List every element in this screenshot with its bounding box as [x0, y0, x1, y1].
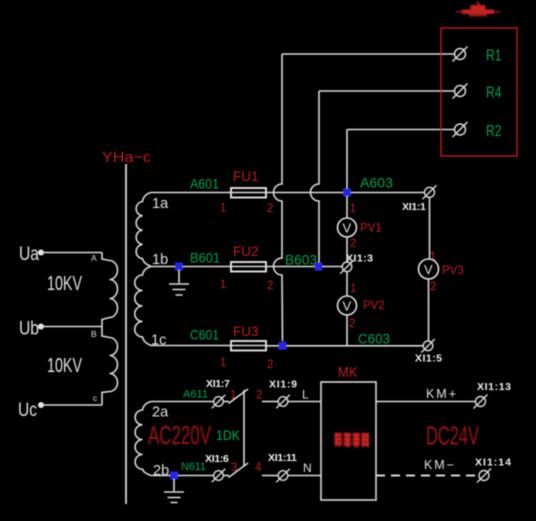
svg-text:Ub: Ub — [19, 319, 39, 340]
terminal XI1:6 — [212, 469, 226, 483]
svg-text:PV3: PV3 — [442, 265, 464, 277]
svg-text:1: 1 — [350, 203, 356, 215]
svg-text:V: V — [424, 262, 433, 277]
secondary winding 1a-1b — [136, 193, 151, 267]
terminal XI1:3 — [340, 260, 354, 274]
wire R2 vertical — [346, 130, 348, 191]
svg-text:L: L — [302, 388, 309, 402]
wire stub after XI1:7 — [224, 401, 230, 403]
transformer core — [125, 164, 127, 504]
secondary winding 1b-1c — [135, 267, 151, 346]
terminal XI1:1 — [423, 185, 437, 199]
svg-text:A603: A603 — [360, 175, 393, 191]
wire stub after XI1:6 — [224, 475, 230, 477]
fuse FU3 — [231, 341, 266, 351]
wire bus A603 — [266, 192, 425, 194]
switch blade 1DK upper — [229, 389, 249, 404]
svg-text:B601: B601 — [190, 250, 220, 266]
svg-text:1: 1 — [220, 357, 226, 369]
wire PV3 bottom — [428, 279, 430, 341]
wire N into MK — [288, 475, 321, 477]
wire R1 vertical with hops — [274, 54, 283, 341]
resistor box — [441, 28, 517, 156]
wire L into MK — [288, 401, 321, 403]
terminal R2 — [453, 122, 468, 137]
wire PV3 top — [429, 198, 431, 260]
node R4-B603 junction — [315, 263, 323, 271]
svg-text:10KV: 10KV — [47, 355, 82, 377]
svg-text:2b: 2b — [153, 463, 169, 479]
svg-text:Uc: Uc — [18, 400, 37, 421]
svg-text:AC220V: AC220V — [148, 420, 211, 450]
node R2-A603 junction — [343, 189, 351, 197]
terminal XI1:11 — [276, 469, 290, 483]
wire 2a to XI1:9 — [262, 401, 278, 403]
terminal XI1:9 — [276, 395, 290, 409]
svg-text:C601: C601 — [190, 327, 219, 343]
heater symbol above box — [456, 2, 500, 17]
wire 1b to FU2 — [151, 266, 231, 268]
terminal XI1:13 — [474, 395, 488, 409]
svg-text:XI1:11: XI1:11 — [268, 452, 297, 464]
svg-text:N611: N611 — [181, 461, 206, 473]
svg-text:FU1: FU1 — [233, 169, 259, 184]
voltmeter PV1 — [338, 218, 357, 237]
wire Uc to winding — [41, 404, 102, 406]
wire Ub to winding — [41, 326, 102, 328]
rectifier module MK box — [321, 382, 376, 500]
svg-text:XI1:7: XI1:7 — [206, 378, 230, 390]
svg-text:XI1:3: XI1:3 — [346, 253, 373, 265]
wire bus C603 — [266, 345, 424, 347]
svg-text:N: N — [303, 461, 312, 475]
node 1b ground junction — [175, 263, 183, 271]
wire R4 vertical with hop — [311, 91, 320, 263]
svg-text:2: 2 — [349, 318, 355, 330]
svg-text:DC24V: DC24V — [426, 421, 479, 451]
svg-text:1DK: 1DK — [216, 427, 241, 443]
wire R2 horizontal — [347, 129, 455, 131]
svg-text:XI1:14: XI1:14 — [475, 457, 511, 469]
primary winding A-B — [102, 253, 118, 327]
svg-text:A601: A601 — [190, 176, 219, 192]
wire PV2 bottom — [346, 315, 348, 346]
svg-text:10KV: 10KV — [47, 273, 82, 295]
svg-text:4: 4 — [255, 462, 262, 474]
wire PV1 bottom — [346, 237, 348, 262]
svg-text:C603: C603 — [358, 331, 390, 347]
svg-text:B: B — [91, 329, 97, 339]
svg-text:2: 2 — [430, 281, 436, 293]
switch linkage 1DK — [243, 390, 245, 467]
svg-text:XI1:9: XI1:9 — [269, 379, 297, 391]
wire PV2 top — [346, 272, 348, 296]
svg-text:FU3: FU3 — [233, 324, 259, 339]
node R1-C603 junction — [279, 342, 287, 350]
fuse FU2 — [231, 262, 266, 272]
svg-text:FU2: FU2 — [233, 244, 259, 259]
svg-text:R4: R4 — [486, 85, 502, 102]
svg-text:XI1:13: XI1:13 — [477, 381, 511, 393]
wire bus B603 — [266, 266, 343, 268]
wire 2a run — [151, 401, 214, 403]
svg-text:V: V — [343, 299, 352, 314]
svg-text:A611: A611 — [183, 389, 208, 401]
svg-text:MK: MK — [338, 364, 358, 381]
ground at 2b — [164, 479, 184, 503]
wire 2b to XI1:11 — [262, 475, 278, 477]
wire R1 horizontal — [282, 53, 455, 55]
svg-text:2: 2 — [267, 280, 273, 292]
terminal XI1:5 — [421, 339, 435, 353]
wire R4 horizontal — [319, 90, 455, 92]
svg-text:2: 2 — [267, 359, 273, 371]
node Ub terminal dot — [38, 324, 44, 330]
svg-text:1b: 1b — [152, 252, 168, 268]
svg-text:2: 2 — [350, 238, 356, 250]
wire Ua to winding — [41, 252, 102, 254]
rectifier module label glyph blobs — [335, 433, 370, 449]
wire PV1 top — [346, 196, 348, 218]
voltmeter PV2 — [338, 296, 357, 315]
ground at 1b — [169, 270, 189, 295]
wire MK to KM+ — [376, 401, 476, 403]
svg-text:1: 1 — [350, 283, 356, 295]
svg-text:KM−: KM− — [424, 458, 454, 472]
wire 2b run — [151, 475, 214, 477]
terminal R1 — [453, 47, 468, 62]
terminal XI1:14 — [477, 469, 491, 483]
svg-text:XI1:5: XI1:5 — [415, 353, 442, 365]
terminal XI1:7 — [212, 395, 226, 409]
svg-text:2: 2 — [256, 390, 262, 402]
svg-text:1: 1 — [220, 203, 226, 215]
svg-text:PV1: PV1 — [360, 223, 382, 235]
svg-text:XI1:1: XI1:1 — [402, 201, 426, 213]
svg-text:A: A — [91, 253, 97, 263]
svg-text:R1: R1 — [486, 48, 502, 65]
svg-text:KM+: KM+ — [426, 387, 456, 401]
svg-text:Ua: Ua — [19, 244, 39, 265]
svg-text:R2: R2 — [486, 123, 502, 140]
svg-text:1: 1 — [220, 279, 226, 291]
wire 1c to FU3 — [151, 345, 231, 347]
svg-text:XI1:6: XI1:6 — [205, 453, 229, 465]
wire 1a to FU1 — [151, 192, 231, 194]
svg-text:PV2: PV2 — [363, 300, 385, 312]
primary winding B-c — [102, 327, 118, 406]
fuse FU1 — [231, 188, 266, 198]
svg-text:V: V — [343, 221, 352, 236]
node Ua terminal dot — [38, 250, 44, 256]
svg-text:2a: 2a — [152, 405, 169, 421]
svg-text:YHa~c: YHa~c — [102, 149, 152, 166]
switch blade 1DK lower — [229, 463, 249, 478]
node Uc terminal dot — [38, 402, 44, 408]
svg-text:1a: 1a — [152, 196, 169, 212]
node 2b ground junction — [170, 472, 178, 480]
voltmeter PV3 — [419, 259, 439, 279]
secondary winding 2a-2b — [135, 402, 151, 476]
terminal R4 — [453, 84, 468, 99]
wire MK to KM- dashed — [376, 475, 478, 477]
svg-text:B603: B603 — [285, 252, 317, 268]
svg-text:2: 2 — [267, 203, 273, 215]
